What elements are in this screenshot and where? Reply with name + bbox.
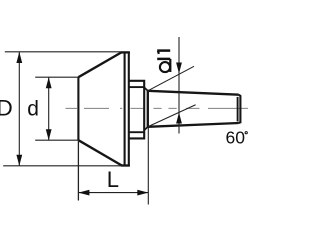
svg-text:D: D [0, 96, 13, 121]
L arrow left [78, 190, 89, 196]
d1 arrow down [176, 63, 182, 74]
svg-text:d: d [27, 97, 39, 120]
L dimension line [78, 192, 148, 194]
chamfer slant bottom (collar to shaft) [144, 127, 148, 131]
rim right vertical / big face [128, 52, 130, 166]
D extension line bottom [3, 165, 122, 167]
collar outline [129, 81, 144, 139]
cone top slant [78, 52, 121, 77]
L extension line right [147, 128, 149, 205]
d1 arrow up [176, 113, 182, 124]
d arrow up [46, 77, 52, 88]
D arrow down [16, 155, 22, 166]
D dimension line [18, 52, 20, 166]
chamfer slant top (collar to shaft) [144, 87, 148, 91]
svg-text:60: 60 [226, 128, 246, 148]
rim bottom edge [121, 164, 130, 166]
shaft left face [147, 91, 149, 127]
D extension line top [5, 51, 122, 53]
D arrow up [16, 52, 22, 63]
L arrow right [137, 190, 148, 196]
d1 oblique extension line lower [148, 105, 196, 127]
L extension line left [77, 140, 79, 200]
centerline [66, 107, 249, 109]
rim left vertical [124, 52, 126, 165]
shaft end chamfer line [237, 97, 239, 122]
cone bottom slant [78, 140, 121, 165]
collar inner line bottom [129, 131, 144, 133]
shaft bottom edge [148, 123, 239, 127]
label d1 (rotated): drawn as shapes [157, 51, 170, 73]
d1 oblique extension line upper [148, 66, 194, 91]
svg-text:L: L [107, 167, 119, 192]
d1 dimension line vertical [178, 37, 180, 134]
d extension line top [35, 76, 78, 78]
shaft end face [239, 95, 241, 123]
d extension line bottom [35, 139, 79, 141]
d dimension line [48, 77, 50, 140]
shaft top edge [148, 91, 239, 95]
degree mark [245, 132, 247, 134]
rim top edge [121, 51, 130, 53]
collar inner line top [129, 86, 144, 88]
cone small face [77, 77, 79, 140]
d arrow down [46, 129, 52, 140]
